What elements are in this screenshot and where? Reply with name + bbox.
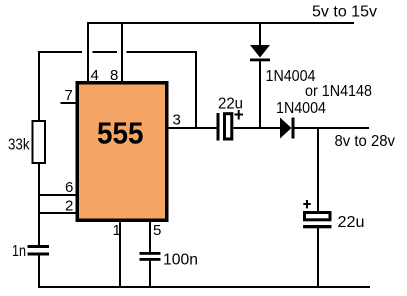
svg-text:1N4004: 1N4004 [276, 100, 326, 117]
wire: feedback pin3 to 33k (crosses pin4/pin8 wires with gaps) [38, 51, 197, 128]
capacitor C1 1n [28, 245, 50, 256]
svg-text:2: 2 [65, 198, 73, 215]
svg-text:7: 7 [65, 87, 73, 104]
label: + polarity C3 [303, 200, 310, 208]
wire: diode D1 to junction node A [259, 61, 261, 128]
resistor R1 33k [33, 121, 46, 163]
wire: capacitor C4 to ground rail [149, 261, 151, 289]
svg-text:22u: 22u [218, 96, 243, 113]
wire: capacitor C2 to junction node A [234, 127, 281, 129]
svg-text:5v to 15v: 5v to 15v [312, 4, 377, 21]
wire: pin 4 to supply rail [87, 22, 89, 82]
capacitor C3 22u [303, 213, 332, 229]
IC U1 555 [77, 83, 167, 221]
capacitor C2 22u electrolytic [217, 113, 232, 141]
wire: output rail to 8v to 28v [294, 127, 369, 129]
wire: pin 3 output to capacitor C2 [166, 127, 217, 129]
wire: left rail from resistor down to capacitor C1 [38, 163, 40, 246]
wire: supply rail down to diode D1 [259, 22, 261, 46]
diode D2 1N4004 [280, 118, 295, 139]
wire: pin 8 to supply rail [121, 22, 123, 82]
wire: pin 1 to ground rail [119, 220, 121, 288]
svg-text:1: 1 [113, 222, 121, 239]
wire: pin 6 to left rail [38, 194, 77, 196]
svg-text:3: 3 [173, 112, 181, 129]
svg-text:6: 6 [65, 179, 73, 196]
svg-text:22u: 22u [338, 214, 365, 231]
svg-text:100n: 100n [163, 252, 198, 269]
capacitor C4 100n [140, 252, 161, 261]
wire: output down to capacitor C3 [317, 127, 319, 212]
wire: capacitor C3 to ground rail [317, 228, 319, 288]
wire: pin 2 to left rail [38, 212, 77, 214]
svg-text:8: 8 [110, 67, 118, 84]
svg-text:555: 555 [97, 116, 144, 151]
svg-text:1n: 1n [12, 243, 26, 260]
svg-text:33k: 33k [8, 137, 30, 154]
pin 7 stub [61, 102, 78, 104]
svg-text:or 1N4148: or 1N4148 [305, 83, 372, 100]
wire: pin 5 to capacitor C4 [149, 220, 151, 253]
wire: left rail top segment (feedback to resistor R1) [38, 51, 40, 121]
wire: +V supply rail [88, 22, 354, 24]
wire: capacitor C1 to ground rail [38, 255, 40, 288]
wire: ground rail [38, 286, 370, 288]
svg-text:8v to 28v: 8v to 28v [335, 133, 396, 150]
svg-text:4: 4 [91, 67, 99, 84]
label: + polarity C2 [235, 110, 244, 120]
svg-text:5: 5 [153, 222, 161, 239]
diode D1 1N4004 [250, 45, 270, 61]
